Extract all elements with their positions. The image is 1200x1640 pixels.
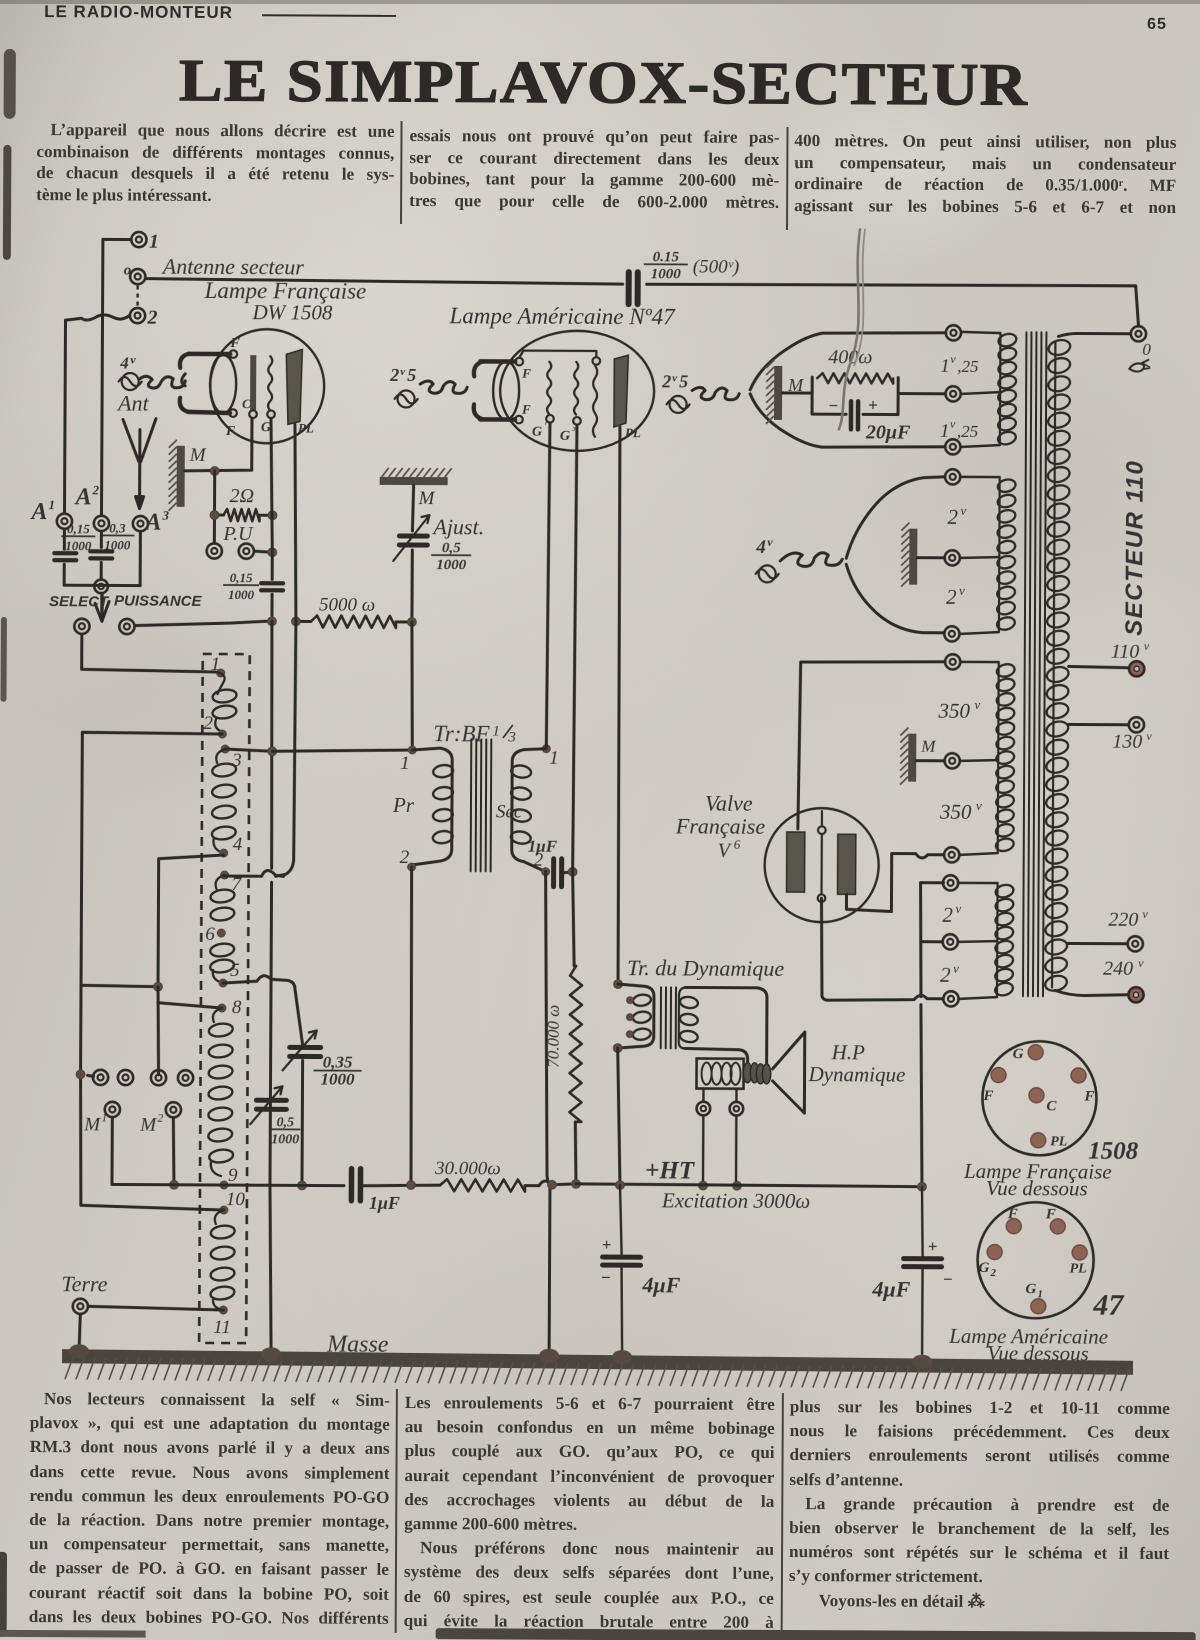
svg-text:M: M: [189, 445, 207, 466]
svg-text:v: v: [1138, 956, 1144, 970]
svg-text:1: 1: [400, 753, 410, 774]
svg-text:3: 3: [507, 730, 516, 746]
svg-text:30.000ω: 30.000ω: [434, 1158, 501, 1179]
ground bar M (HV centre): [908, 734, 916, 782]
terminal 350v bottom: [944, 847, 959, 862]
svg-text:0,5: 0,5: [277, 1115, 295, 1130]
svg-text:,25: ,25: [957, 357, 978, 376]
DW1508 grid G: [268, 356, 272, 410]
wire 4 left: [158, 855, 224, 987]
wire A3 down: [139, 532, 142, 586]
grid rail long vertical down to bus: [269, 621, 273, 1185]
tap 130v: [1068, 723, 1128, 726]
DW1508 filament feed wires: [188, 354, 230, 413]
terminal 2v D mid: [943, 934, 958, 949]
svg-text:C: C: [1046, 1098, 1057, 1114]
svg-text:DW 1508: DW 1508: [251, 300, 333, 324]
47 grid G3: [574, 362, 578, 415]
capacitor 0.15/1000 (500v) series in antenna bus: [626, 272, 632, 304]
wire left rail down to A1: [64, 320, 65, 513]
svg-text:+HT: +HT: [645, 1157, 696, 1184]
ground bar M (grid circuit): [177, 446, 185, 507]
wire 5 to trimmer rail (hop over grid rail): [223, 975, 303, 1045]
svg-text:2: 2: [157, 1111, 163, 1125]
svg-text:M: M: [418, 488, 436, 509]
terminal select: [74, 619, 89, 634]
svg-text:F: F: [982, 1088, 993, 1104]
svg-text:0,15: 0,15: [230, 570, 253, 585]
masse junction blobs: [69, 1344, 89, 1358]
svg-text:SELECT: SELECT: [49, 593, 110, 610]
svg-text:4μF: 4μF: [871, 1276, 910, 1301]
svg-text:+: +: [602, 1235, 612, 1254]
svg-text:P.U: P.U: [222, 523, 254, 545]
svg-text:Vue dessous: Vue dessous: [987, 1341, 1089, 1366]
47 G1 wire down to TrBF sec 1: [546, 423, 550, 749]
svg-text:20μF: 20μF: [865, 421, 911, 443]
svg-text:0,15: 0,15: [67, 521, 90, 536]
wire 3 to grid rail: [225, 749, 272, 751]
pencil crease: [839, 229, 860, 429]
svg-text:F: F: [1007, 1206, 1018, 1222]
svg-text:2: 2: [92, 482, 100, 497]
svg-text:v: v: [400, 366, 405, 378]
tap 110v: [1069, 666, 1129, 667]
tube DW1508 envelope: [210, 329, 325, 444]
transformer winding 2v section B: [961, 477, 1000, 634]
svg-text:Valve: Valve: [705, 791, 753, 816]
svg-text:′: ′: [544, 419, 547, 433]
masse bar: [62, 1349, 1133, 1375]
terminal 2v D top: [943, 875, 958, 890]
svg-text:9: 9: [228, 1165, 238, 1186]
4v loop bottom wire: [846, 564, 944, 633]
wire M to cathode: [185, 418, 252, 471]
svg-text:4: 4: [755, 537, 766, 558]
svg-text:H.P: H.P: [831, 1040, 866, 1064]
svg-text:v: v: [976, 798, 982, 813]
svg-text:M: M: [920, 737, 936, 756]
trimmer 0,5/1000 on grid rail: [256, 1098, 286, 1103]
capacitor under A2: [100, 531, 103, 547]
transformer winding 2v section D: [959, 883, 998, 999]
capacitor under A1: [63, 529, 66, 549]
terminal 1v25 bottom: [945, 439, 960, 454]
svg-text:v: v: [1146, 729, 1152, 743]
lamp base Francaise 1508: [982, 1041, 1097, 1156]
terminal PU left: [207, 543, 222, 558]
svg-text:Ajust.: Ajust.: [431, 514, 484, 539]
svg-text:10: 10: [226, 1189, 246, 1210]
wire M to terminal: [916, 759, 944, 762]
svg-text:5: 5: [679, 371, 688, 391]
capacitor 4uF right: [921, 1187, 923, 1354]
svg-text:F: F: [229, 336, 240, 351]
dashed link o-2: [136, 286, 139, 308]
wire trimmer down to 5000w node: [410, 550, 413, 622]
svg-text:F: F: [1045, 1206, 1056, 1222]
terminal row M1 M2: [76, 1070, 85, 1079]
lamp base Americaine 47: [977, 1202, 1094, 1319]
bus 9 (reaction return): [112, 1184, 344, 1185]
excitation terminals: [702, 1089, 705, 1185]
wire terminal 1 to junction: [103, 239, 131, 313]
svg-text:0.15: 0.15: [653, 249, 680, 265]
terminal M1: [105, 1102, 120, 1117]
svg-text:220: 220: [1108, 909, 1138, 931]
DW1508 cathode bar C: [250, 355, 256, 410]
arrow selector: [100, 595, 104, 615]
svg-text:1000: 1000: [65, 538, 92, 553]
47 center element: [592, 357, 600, 365]
svg-text:5: 5: [407, 365, 416, 385]
svg-text:8: 8: [232, 997, 242, 1018]
terminal puissance: [119, 619, 134, 634]
svg-text:o: o: [124, 262, 132, 278]
power transformer core: [1023, 332, 1026, 996]
svg-text:G: G: [979, 1260, 990, 1276]
svg-text:−: −: [600, 1268, 610, 1287]
47 filament: [493, 361, 519, 419]
svg-text:110: 110: [1111, 641, 1140, 663]
terminal 2v group B mid: [945, 550, 960, 565]
svg-text:2Ω: 2Ω: [230, 485, 255, 507]
TrBF primary 2 wire down to bus: [410, 867, 413, 1185]
TrDyn primary: [618, 984, 654, 1048]
svg-text:1000: 1000: [320, 1070, 355, 1089]
svg-text:2: 2: [940, 963, 951, 987]
trimmer capacitor Ajust 0,5/1000: [399, 533, 427, 538]
svg-text:PL: PL: [298, 420, 314, 435]
terminal o (antenne): [130, 269, 145, 284]
svg-text:0,3: 0,3: [109, 520, 126, 535]
svg-text:+: +: [868, 395, 878, 414]
small hand mark: [1129, 360, 1148, 372]
svg-text:6: 6: [734, 837, 741, 852]
svg-text:Dynamique: Dynamique: [808, 1062, 906, 1087]
svg-text:350: 350: [939, 800, 972, 824]
terminal 0 (secteur top): [1131, 326, 1146, 341]
ground bar M (4v heater): [909, 529, 917, 585]
heater loop top wire: [750, 332, 945, 391]
svg-text:PL: PL: [625, 425, 641, 440]
svg-text:−: −: [828, 396, 838, 415]
terminal 2v D bottom: [943, 991, 958, 1006]
svg-text:v: v: [950, 417, 956, 431]
svg-text:1: 1: [101, 1110, 107, 1124]
svg-text:PL: PL: [1070, 1261, 1087, 1276]
tube 47 envelope: [500, 330, 655, 451]
svg-text:4: 4: [119, 353, 129, 372]
svg-text:2: 2: [146, 307, 157, 329]
masse drop from coil bus: [269, 1185, 272, 1354]
wire 5000w right down to TrBF primary 1: [411, 622, 413, 747]
47 plate PL: [614, 355, 628, 427]
svg-text:A: A: [29, 499, 47, 525]
transformer winding 350v section: [960, 662, 999, 855]
svg-text:A: A: [143, 510, 161, 536]
wire select to coil pin 1: [82, 634, 216, 672]
tap 220v: [1067, 942, 1127, 945]
terminal 350v top: [945, 654, 960, 669]
svg-text:V: V: [718, 840, 733, 862]
TrBF secondary 2 wire to masse (jog at HT bus): [543, 872, 552, 1352]
svg-text:Vue dessous: Vue dessous: [986, 1176, 1088, 1201]
wire M down to trimmer: [412, 485, 413, 531]
47 plate to TrDyn primary: [614, 980, 623, 989]
terminal A3: [133, 516, 148, 531]
tap 240v (bottom): [1055, 990, 1127, 995]
trimmer 0,35/1000: [290, 1045, 321, 1050]
terminal 1v25 mid: [945, 386, 960, 401]
svg-text:2: 2: [942, 903, 953, 927]
svg-text:130: 130: [1112, 731, 1142, 753]
4v loop top wire: [846, 476, 944, 559]
terminal 2: [130, 308, 145, 323]
transformer primary winding 1v25 section: [962, 332, 1001, 447]
grid rail down (DW plate circuit): [270, 418, 273, 579]
svg-text:350: 350: [937, 699, 970, 723]
svg-text:M: M: [83, 1114, 101, 1135]
wire 8 to left mid rail: [81, 985, 222, 1008]
wire TrDyn primary bottom to HT bus: [613, 1044, 622, 1053]
svg-text:PL: PL: [1050, 1134, 1067, 1149]
svg-text:2: 2: [203, 713, 213, 734]
svg-text:5000 ω: 5000 ω: [319, 595, 375, 616]
svg-text:1000: 1000: [228, 587, 255, 602]
wire valve filament bottom to 2v D bottom (jog at HT rail): [821, 898, 944, 1001]
HT bus: [576, 1184, 920, 1187]
svg-text:F: F: [521, 366, 531, 381]
svg-text:5: 5: [230, 960, 240, 981]
svg-text:1: 1: [492, 723, 500, 739]
HT takeoff rail from 2v D top down to HT bus: [919, 883, 944, 1187]
svg-text:1μF: 1μF: [369, 1193, 400, 1213]
wire terminal1 rail down to A2: [101, 315, 102, 515]
svg-text:1: 1: [549, 748, 559, 769]
terminal A1: [57, 514, 72, 529]
svg-text:11: 11: [213, 1317, 231, 1338]
svg-text:v: v: [767, 535, 773, 549]
svg-text:4: 4: [233, 834, 243, 855]
svg-text:PUISSANCE: PUISSANCE: [114, 592, 203, 609]
svg-text:0,5: 0,5: [442, 540, 461, 556]
svg-text:M: M: [139, 1115, 157, 1136]
svg-text:2: 2: [389, 365, 399, 385]
wire TrBF primary1 to grid rail: [272, 749, 412, 752]
svg-text:1000: 1000: [651, 266, 682, 282]
wire puissance to node: [135, 621, 267, 627]
47 top strap: [519, 351, 596, 358]
svg-text:Lampe Américaine Nº47: Lampe Américaine Nº47: [448, 303, 676, 329]
svg-text:240: 240: [1103, 958, 1133, 980]
svg-text:Terre: Terre: [61, 1271, 107, 1296]
Simplavox coil dashed box: [199, 654, 250, 1343]
svg-text:4μF: 4μF: [641, 1272, 680, 1297]
svg-text:+: +: [928, 1237, 938, 1256]
svg-text:Ant: Ant: [116, 390, 150, 415]
svg-text:v: v: [953, 961, 959, 976]
wire PU right to grid rail: [254, 551, 272, 552]
wire winding2 to left rail: [81, 732, 222, 986]
wire M1 down to bus: [110, 1117, 113, 1184]
terminal PU right: [239, 544, 254, 559]
svg-text:Pr: Pr: [392, 793, 415, 817]
svg-text:2: 2: [661, 371, 671, 391]
svg-text:Tr. du Dynamique: Tr. du Dynamique: [627, 955, 784, 981]
47 filament feed: [480, 361, 515, 419]
valve right plate: [838, 834, 856, 894]
capacitor 0,15/1000 grid: [261, 581, 283, 585]
svg-text:v: v: [974, 697, 980, 712]
resistor 70.000w (grid2 feed): [572, 872, 574, 966]
svg-text:v: v: [950, 352, 956, 366]
svg-text:F: F: [521, 402, 531, 417]
terminal 1v25 top: [946, 325, 961, 340]
svg-text:v: v: [1144, 639, 1150, 653]
svg-text:v: v: [955, 901, 961, 916]
DW plate wire PL down: [276, 424, 297, 876]
svg-text:2: 2: [947, 505, 958, 529]
node switch common: [94, 580, 108, 594]
wire 7 to PL rail (hop over grid rail): [225, 870, 284, 876]
valve filament: [820, 811, 823, 895]
svg-text:1: 1: [149, 231, 159, 253]
svg-text:1000: 1000: [436, 557, 467, 573]
svg-text:1μF: 1μF: [528, 837, 558, 856]
svg-text:v: v: [959, 583, 965, 598]
svg-text:F: F: [225, 424, 236, 439]
svg-text:1: 1: [48, 497, 55, 512]
twisted pair 47 heater right: [692, 387, 739, 399]
47 G3 wire down to 1uF node: [573, 425, 577, 872]
HP field coil stack: [743, 1063, 771, 1084]
svg-text:G: G: [1013, 1046, 1024, 1062]
svg-text:G: G: [532, 425, 542, 440]
DW1508 filament: [210, 355, 236, 413]
wire junction to PU left: [210, 467, 219, 476]
wire right plate to 350v bottom terminal: [846, 853, 943, 912]
terminal M2: [166, 1102, 181, 1117]
svg-text:C: C: [242, 396, 251, 411]
svg-text:G: G: [560, 429, 570, 444]
HP voice coil box: [696, 1059, 743, 1089]
terminal 2v group B bottom: [944, 626, 959, 641]
terminal A2: [94, 516, 109, 531]
svg-text:F: F: [1083, 1089, 1094, 1105]
ground bar M (47 heater): [774, 366, 782, 420]
wire to HT bus with jog at grid2 rail: [525, 1181, 576, 1186]
twisted pair to DW1508 filament: [140, 376, 185, 388]
TrDyn secondary: [685, 987, 767, 1062]
svg-text:v: v: [130, 353, 136, 367]
wire M to 400w box: [782, 391, 812, 394]
svg-text:v: v: [1142, 907, 1148, 921]
HP cone: [772, 1032, 804, 1113]
svg-text:Antenne secteur: Antenne secteur: [161, 254, 305, 280]
valve left plate: [787, 832, 805, 892]
svg-text:SECTEUR 110: SECTEUR 110: [1121, 460, 1149, 636]
svg-text:1: 1: [940, 356, 950, 377]
heater loop bottom wire: [750, 394, 945, 448]
wire bottom rail A1-A3: [64, 584, 140, 587]
svg-text:1: 1: [940, 421, 950, 442]
svg-text:47: 47: [1092, 1289, 1124, 1322]
DW1508 plate PL: [286, 349, 302, 424]
twisted pair to 47 filament: [420, 381, 467, 393]
svg-text:(500ᵛ): (500ᵛ): [693, 256, 740, 277]
twisted pair 4v: [780, 553, 842, 567]
47 grid G1: [547, 362, 551, 414]
wire 10 to left rail: [80, 1072, 225, 1210]
wire squiggle from terminal 2 to left rail: [66, 315, 130, 321]
ground bar M (ajust): [380, 477, 448, 485]
svg-text:−: −: [942, 1270, 952, 1289]
TrBF core: [470, 739, 473, 871]
terminal 1: [131, 232, 146, 247]
svg-text:Française: Française: [675, 813, 766, 838]
svg-text:³: ³: [572, 425, 576, 437]
svg-text:Sec: Sec: [496, 801, 523, 822]
svg-text:70.000 ω: 70.000 ω: [544, 1005, 563, 1068]
wire secteur top to terminal 0: [1058, 333, 1130, 336]
TrDyn core: [660, 987, 662, 1048]
wire M2 down to bus: [173, 1118, 174, 1185]
svg-text:2: 2: [946, 585, 957, 609]
svg-text:1000: 1000: [271, 1132, 299, 1147]
terminal 2v group B top: [945, 469, 960, 484]
svg-text:,25: ,25: [957, 422, 978, 441]
svg-text:1: 1: [1037, 1288, 1043, 1300]
capacitor 1uF (coil bus): [349, 1169, 355, 1201]
terminal HV centre: [945, 753, 960, 768]
svg-text:Excitation 3000ω: Excitation 3000ω: [661, 1188, 811, 1213]
svg-text:A: A: [74, 484, 92, 510]
svg-text:2: 2: [989, 1267, 996, 1279]
wire box to terminal: [898, 392, 945, 395]
svg-text:G: G: [1025, 1281, 1036, 1297]
transformer secondary (secteur) winding: [1052, 342, 1055, 987]
left rail down to terminal row: [81, 985, 159, 1074]
wire antenne secteur bus: [146, 279, 1139, 326]
svg-text:0: 0: [1142, 340, 1151, 359]
valve envelope: [764, 808, 879, 923]
wire trimmer down to bus: [300, 1060, 304, 1185]
47 plate wire down to TrDyn: [617, 427, 621, 984]
svg-text:v: v: [672, 372, 677, 384]
capacitor 4uF left: [619, 1185, 623, 1352]
svg-text:v: v: [960, 503, 966, 518]
svg-text:6: 6: [205, 924, 215, 945]
wire M to terminal: [917, 556, 944, 559]
wire 350v top to valve left plate: [798, 661, 945, 830]
